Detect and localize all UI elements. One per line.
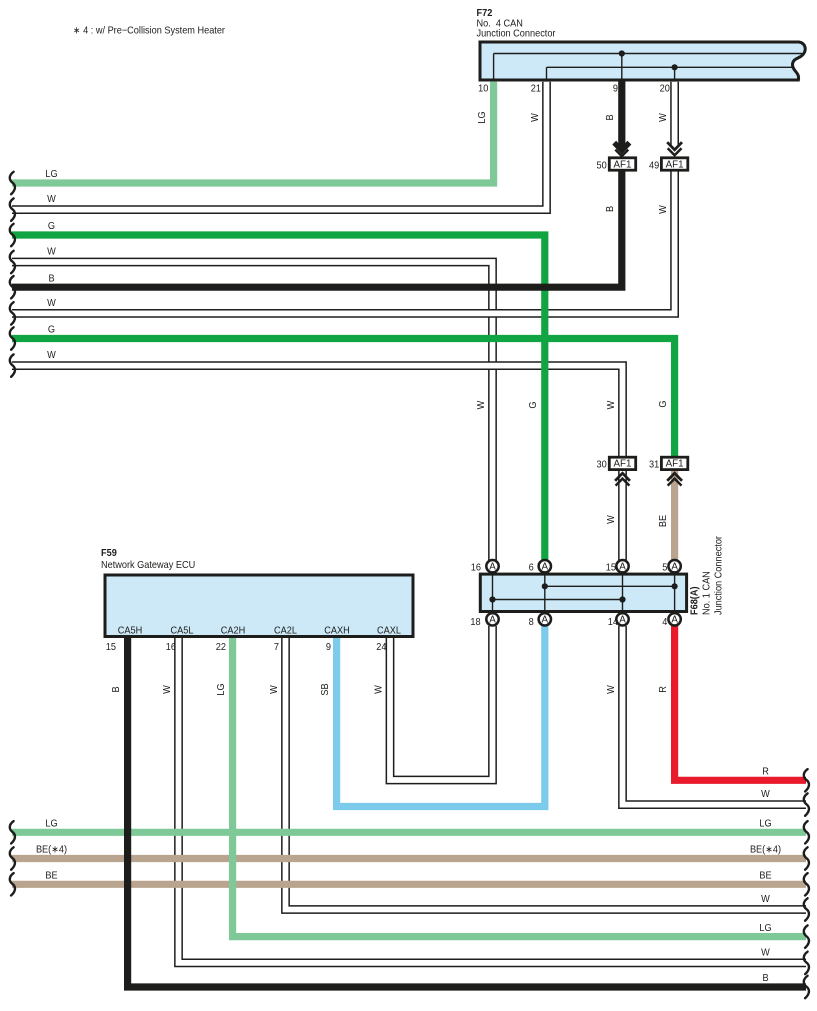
svg-text:AF1: AF1 [614,459,632,470]
svg-text:20: 20 [660,83,671,95]
svg-text:G: G [48,221,55,233]
svg-text:AF1: AF1 [666,159,684,170]
svg-text:No. 1 CAN: No. 1 CAN [701,571,713,615]
svg-text:CA2H: CA2H [221,625,245,637]
svg-text:AF1: AF1 [614,159,632,170]
svg-text:LG: LG [216,683,228,695]
svg-text:BE(∗4): BE(∗4) [36,844,67,856]
svg-text:LG: LG [45,169,57,181]
svg-text:16: 16 [471,562,481,574]
svg-text:A: A [542,562,549,573]
svg-text:W: W [605,400,617,409]
svg-text:Network Gateway ECU: Network Gateway ECU [101,560,195,572]
svg-text:B: B [762,973,768,985]
svg-text:14: 14 [608,616,619,628]
svg-text:CAXH: CAXH [324,625,349,637]
svg-text:7: 7 [274,642,279,654]
svg-text:A: A [542,615,549,626]
svg-text:W: W [658,204,670,213]
svg-text:LG: LG [477,111,489,123]
svg-text:BE: BE [658,514,670,527]
svg-text:BE(∗4): BE(∗4) [750,844,781,856]
svg-text:SB: SB [320,683,332,695]
svg-text:BE: BE [759,870,772,882]
svg-text:A: A [671,615,678,626]
svg-text:30: 30 [597,459,608,471]
svg-text:CA2L: CA2L [274,625,298,637]
svg-text:LG: LG [45,818,57,830]
svg-text:8: 8 [529,616,534,628]
svg-text:50: 50 [597,160,608,172]
svg-text:W: W [605,684,617,693]
svg-text:W: W [761,789,770,801]
svg-text:CAXL: CAXL [377,625,402,637]
svg-text:B: B [48,273,54,285]
svg-text:W: W [47,246,56,258]
svg-text:W: W [161,684,173,693]
svg-text:21: 21 [531,83,541,95]
svg-text:W: W [761,947,770,959]
svg-text:W: W [529,112,541,121]
svg-text:W: W [47,194,56,206]
svg-text:49: 49 [649,160,659,172]
svg-text:9: 9 [613,83,618,95]
svg-text:Junction Connector: Junction Connector [713,535,725,615]
svg-text:BE: BE [45,870,58,882]
svg-text:6: 6 [529,562,534,574]
svg-text:F59: F59 [101,548,117,560]
svg-text:W: W [605,514,617,523]
svg-text:A: A [671,562,678,573]
svg-text:22: 22 [216,642,226,654]
svg-text:W: W [47,350,56,362]
svg-text:LG: LG [759,818,771,830]
svg-text:W: W [373,684,385,693]
svg-text:Junction Connector: Junction Connector [477,28,557,40]
svg-text:4: 4 [662,616,668,628]
svg-text:B: B [605,206,617,212]
svg-text:W: W [761,894,770,906]
svg-text:LG: LG [759,922,771,934]
svg-text:A: A [489,562,496,573]
svg-text:18: 18 [470,616,480,628]
svg-text:W: W [475,400,487,409]
svg-text:W: W [268,684,280,693]
svg-text:15: 15 [606,562,616,574]
svg-text:R: R [658,686,670,693]
svg-text:15: 15 [106,642,116,654]
svg-text:5: 5 [662,562,667,574]
svg-text:F68(A): F68(A) [689,586,701,615]
svg-text:24: 24 [376,642,387,654]
svg-text:W: W [658,112,670,121]
svg-text:CA5H: CA5H [118,625,142,637]
svg-text:B: B [111,686,123,692]
svg-text:31: 31 [649,459,659,471]
svg-text:W: W [47,297,56,309]
svg-text:16: 16 [166,642,176,654]
svg-text:G: G [658,400,670,407]
svg-text:A: A [489,615,496,626]
svg-text:CA5L: CA5L [171,625,195,637]
svg-text:10: 10 [478,83,489,95]
svg-text:A: A [619,562,626,573]
svg-text:B: B [605,114,617,120]
svg-text:G: G [528,401,540,408]
svg-text:∗ 4 : w/ Pre−Collision System: ∗ 4 : w/ Pre−Collision System Heater [73,25,226,37]
svg-text:9: 9 [326,642,331,654]
svg-text:AF1: AF1 [666,459,684,470]
svg-text:A: A [619,615,626,626]
svg-text:R: R [762,766,769,778]
svg-text:G: G [48,324,55,336]
